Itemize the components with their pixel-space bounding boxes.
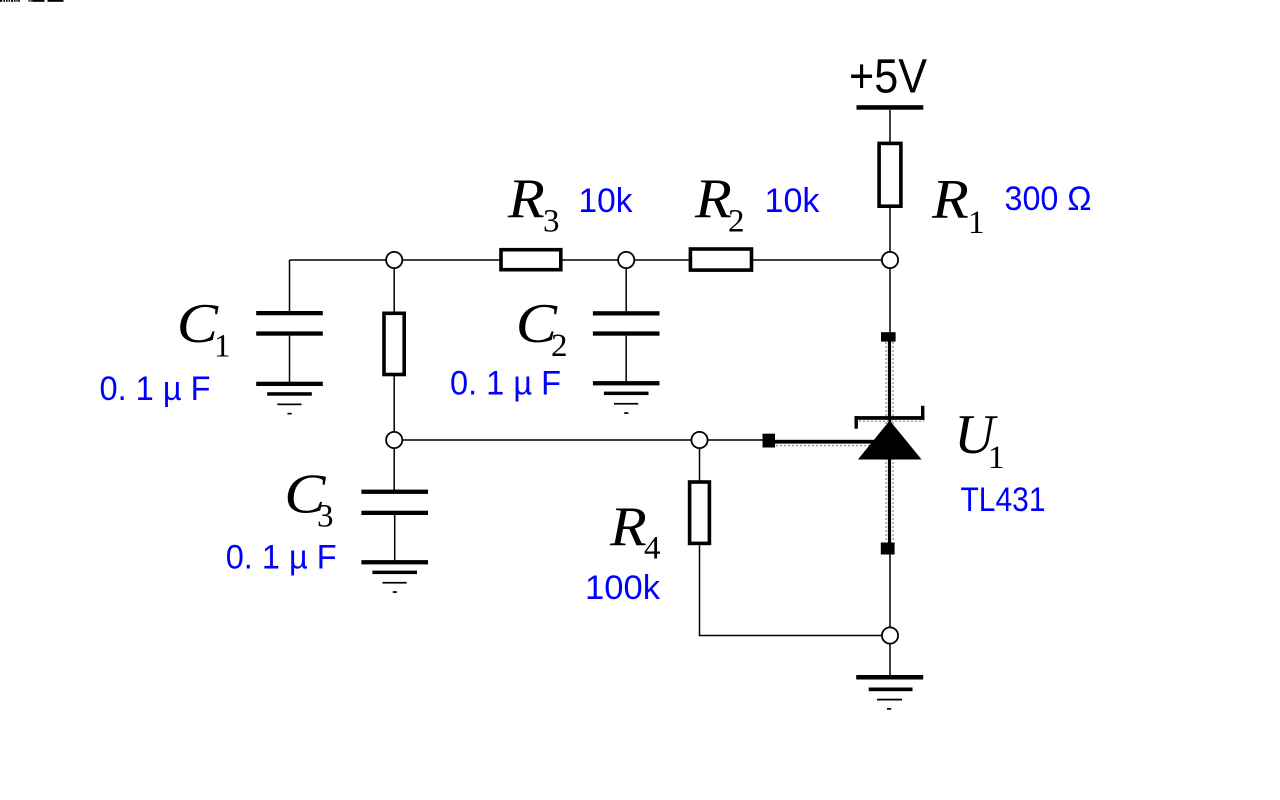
svg-text:R: R <box>694 168 732 230</box>
svg-text:R: R <box>609 496 647 558</box>
svg-text:100k: 100k <box>585 569 661 607</box>
wire R4 to bottom node <box>700 545 882 635</box>
U1 reference pin pad (selection square) <box>763 434 776 448</box>
U1 anode triangle <box>858 421 922 460</box>
svg-text:TL431: TL431 <box>961 481 1046 519</box>
U1 anode selection square <box>881 543 895 555</box>
ground (U1 anode) <box>856 675 923 710</box>
U1 selection dashes (left of body) <box>885 342 887 542</box>
ground (C3) <box>361 560 428 593</box>
svg-text:2: 2 <box>728 204 745 240</box>
svg-text:1: 1 <box>968 205 985 241</box>
wire U1 anode to bottom node <box>889 555 891 628</box>
wire C2 branch drop <box>625 260 627 312</box>
svg-text:4: 4 <box>644 531 661 567</box>
resistor (vertical, unlabeled) between node A and node B <box>393 260 395 440</box>
node (R3 / R2 / C2 junction) <box>618 252 634 268</box>
svg-text:2: 2 <box>551 328 568 364</box>
+5V power rail bar <box>857 105 924 110</box>
node A (R1 / R2 / U1 junction) <box>882 252 898 268</box>
ground (C1) <box>256 382 323 415</box>
resistor R2 <box>690 249 751 270</box>
op U1 TL431 body: thick cathode-anode line <box>888 335 891 550</box>
svg-text:1: 1 <box>988 440 1005 476</box>
capacitor C2 <box>593 311 660 335</box>
wire +5V rail to R1 and through to node A <box>889 110 891 252</box>
wire C1 to ground <box>289 336 291 382</box>
svg-text:0. 1 µ F: 0. 1 µ F <box>226 539 337 577</box>
resistor R4 <box>690 482 710 543</box>
node B (vertical resistor / C3 / lower net junction) <box>386 432 402 448</box>
svg-text:0. 1 µ F: 0. 1 µ F <box>450 365 561 403</box>
svg-text:R: R <box>507 168 545 230</box>
U1 reference input thick line <box>775 440 883 444</box>
svg-text:+5V: +5V <box>849 50 927 103</box>
ground (C2) <box>593 381 660 414</box>
node C (R4 / U1 ref junction) <box>691 432 707 448</box>
svg-text:1: 1 <box>214 329 231 365</box>
svg-text:3: 3 <box>543 204 560 240</box>
node (C1 / R3 / vertical resistor junction) <box>386 252 402 268</box>
resistor R1 <box>879 143 901 206</box>
U1 cathode selection square <box>881 332 896 341</box>
wire C1 branch drop <box>289 260 291 312</box>
U1 selection dashes (below reference line) <box>776 445 872 447</box>
U1 selection dashes (right of body) <box>892 342 894 542</box>
wire node A to U1 cathode pin <box>889 269 891 333</box>
svg-text:R: R <box>931 169 969 231</box>
wire top net (node A row, y=260) <box>290 259 891 261</box>
node D (U1 anode / R4 / ground junction) <box>882 627 898 643</box>
stray cropped text marks at top-left edge <box>0 0 64 2</box>
svg-text:10k: 10k <box>579 182 634 220</box>
wire node C to R4 <box>699 440 701 481</box>
svg-text:C: C <box>177 293 219 355</box>
svg-text:3: 3 <box>317 499 334 535</box>
resistor R3 <box>501 250 561 270</box>
svg-text:300 Ω: 300 Ω <box>1005 180 1092 218</box>
capacitor C3 <box>361 490 428 515</box>
U1 selection dashes (below cathode bar) <box>855 420 924 422</box>
svg-text:10k: 10k <box>765 182 821 220</box>
svg-text:0. 1 µ F: 0. 1 µ F <box>100 370 211 408</box>
capacitor C1 <box>256 311 323 336</box>
wire C2 to ground <box>625 336 627 382</box>
wire bottom node to ground <box>889 644 891 676</box>
wire lower net (node B row, y=440) <box>394 439 762 441</box>
wire C3 branch drop <box>393 440 395 490</box>
U1 cathode bar with end ticks <box>855 406 925 429</box>
wire C3 to ground <box>394 515 396 561</box>
